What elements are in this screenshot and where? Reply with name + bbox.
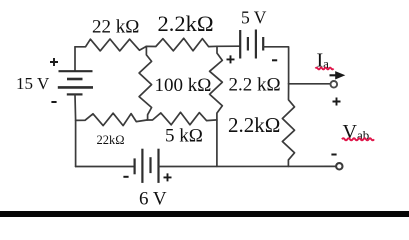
red spell-check squiggle under Ia [316, 68, 334, 70]
battery V1 15V [58, 71, 93, 94]
battery V3 6V [135, 149, 159, 183]
terminal b (open circle) [336, 163, 342, 169]
wire (bottom-left corner to 6V battery) [76, 166, 135, 168]
wire (5V battery to top-right corner, down) [264, 47, 289, 84]
svg-text:6 V: 6 V [139, 189, 167, 210]
svg-text:5 kΩ: 5 kΩ [165, 126, 203, 147]
svg-text:15 V: 15 V [16, 74, 50, 93]
resistor R7 2.2kOhm (right vertical) [282, 84, 294, 167]
wire (6V battery to terminal b) [159, 165, 336, 167]
minus sign of V2 [272, 59, 277, 61]
red spell-check squiggle under Vab [342, 138, 374, 140]
decorative bottom bar [0, 211, 409, 217]
resistor R1 22 kOhm (top) [75, 39, 146, 51]
plus sign of V1 [50, 58, 58, 66]
wire (tap to terminal a) [289, 83, 330, 85]
wire (top-left corner to 15V battery) [74, 47, 76, 71]
minus sign of V1 [51, 101, 56, 103]
wire (junction to 5V battery) [217, 45, 240, 47]
resistor R5 22kOhm (middle row) [76, 113, 147, 125]
wire (15V battery to bottom-left corner) [74, 95, 77, 167]
svg-text:22kΩ: 22kΩ [97, 133, 125, 147]
resistor R6 5 kOhm [147, 112, 217, 125]
terminal a (open circle) [331, 81, 338, 88]
minus sign (Vab) [331, 154, 336, 156]
battery V2 5V [240, 30, 263, 59]
svg-text:2.2kΩ: 2.2kΩ [228, 113, 280, 137]
svg-text:2.2 kΩ: 2.2 kΩ [229, 75, 281, 96]
plus sign of V3 [164, 173, 172, 181]
svg-text:2.2kΩ: 2.2kΩ [158, 11, 214, 36]
svg-text:5 V: 5 V [241, 8, 267, 28]
plus sign of V2 [227, 55, 235, 63]
resistor R4 2.2 kOhm (vertical middle) [210, 46, 223, 166]
resistor R3 100 kOhm (vertical) [139, 46, 152, 120]
current arrow Ia [330, 74, 337, 76]
svg-text:100 kΩ: 100 kΩ [155, 75, 212, 96]
svg-text:22 kΩ: 22 kΩ [92, 17, 139, 38]
minus sign of V3 [123, 176, 128, 178]
plus sign (Vab) [333, 98, 341, 106]
resistor R2 2.2kOhm (top) [146, 38, 217, 51]
